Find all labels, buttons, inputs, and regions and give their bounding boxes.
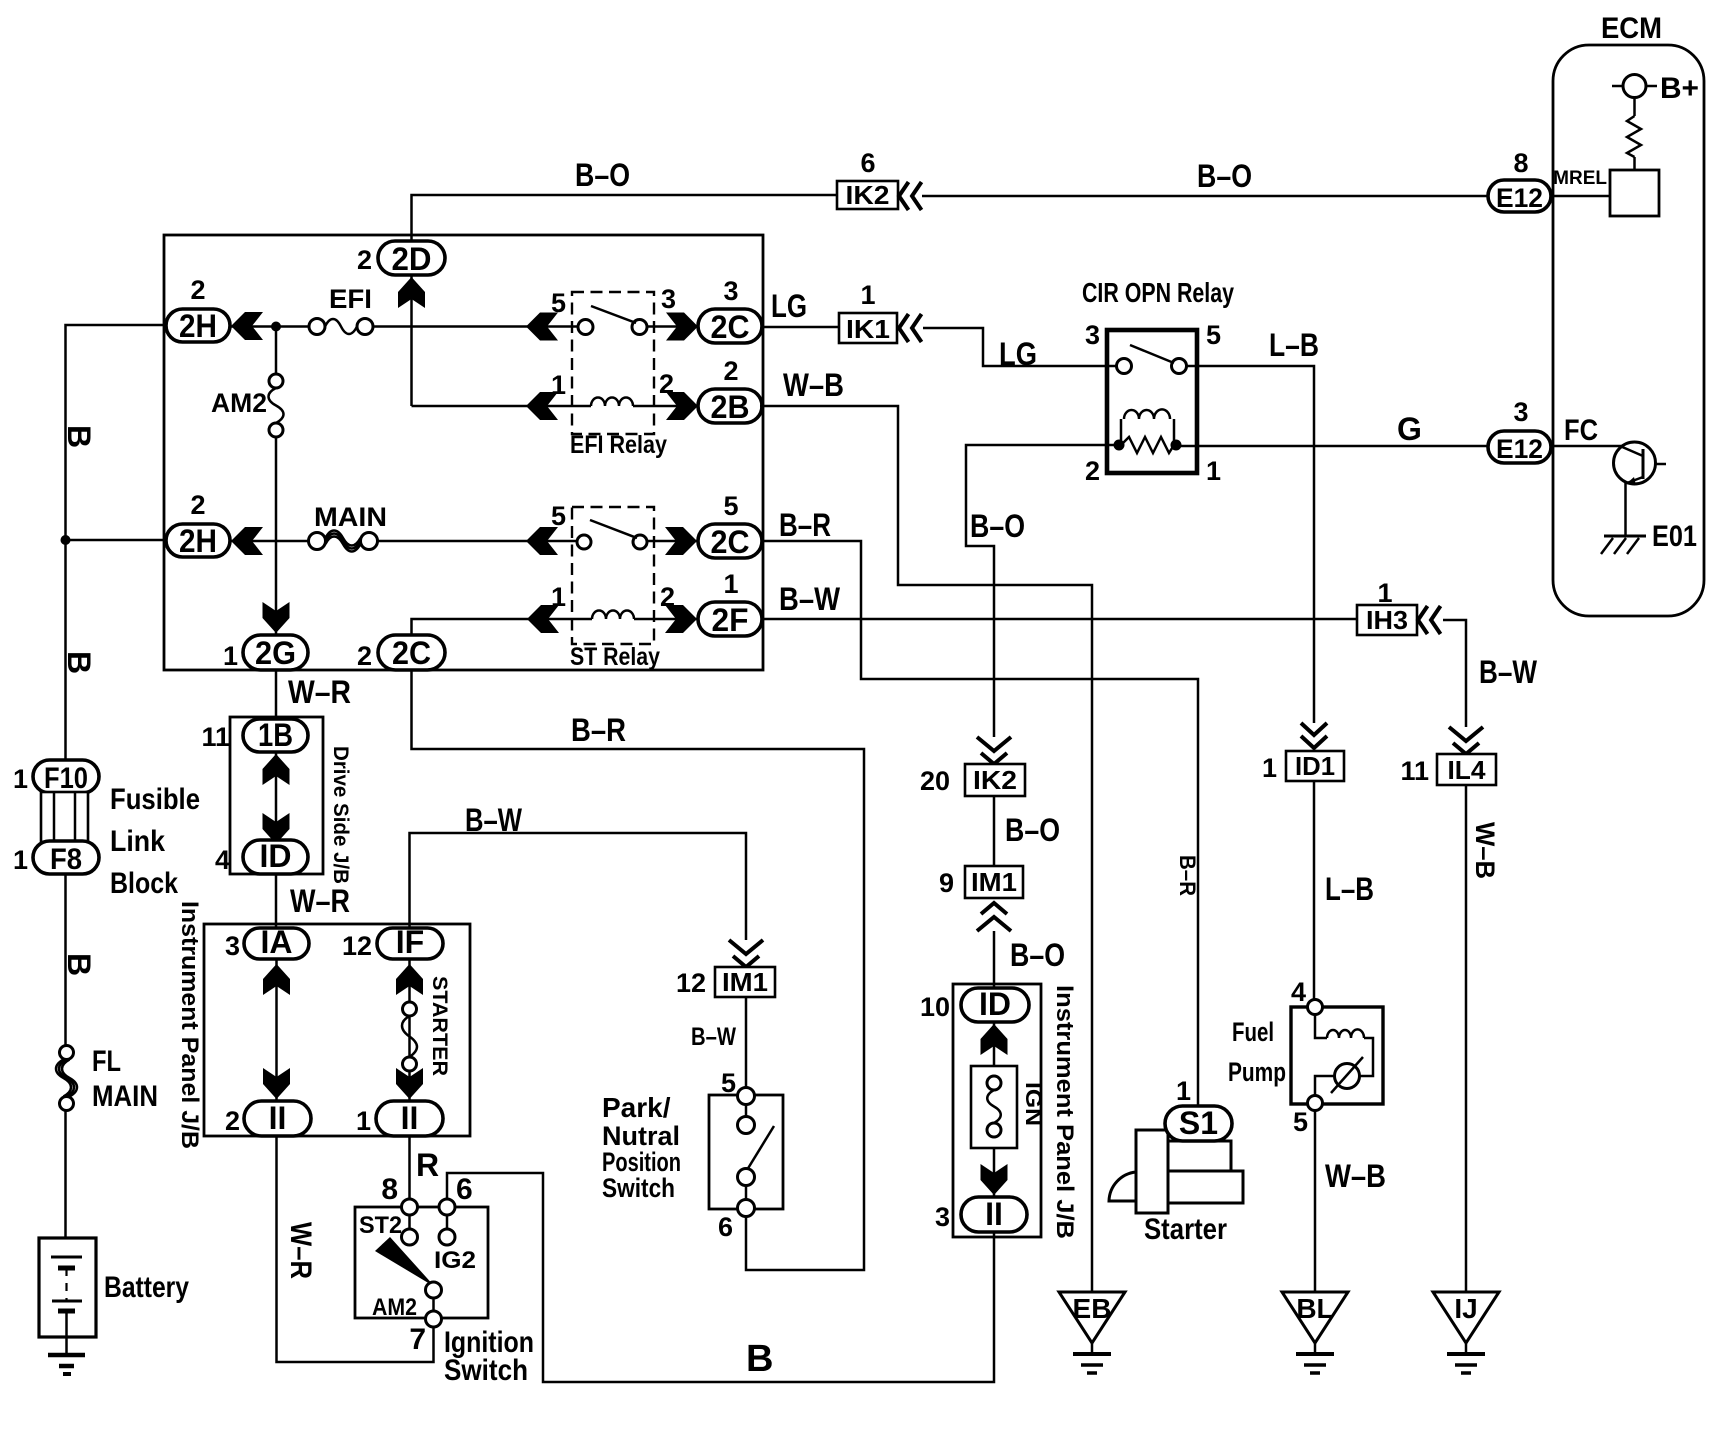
relay EFI coil [591, 398, 633, 407]
ECM module box [1553, 12, 1704, 616]
arrow ST coil in [527, 605, 559, 633]
connector II pin 1 [356, 1100, 443, 1136]
junction node B to MAIN [61, 535, 71, 545]
svg-text:IJ: IJ [1454, 1293, 1477, 1324]
svg-text:3: 3 [661, 284, 676, 314]
svg-text:1: 1 [1262, 753, 1277, 783]
connector IF pin 12 [342, 924, 443, 961]
svg-text:EB: EB [1073, 1293, 1112, 1324]
svg-text:B–R: B–R [571, 712, 626, 748]
arrow up ID [981, 1024, 1008, 1055]
svg-text:11: 11 [1400, 756, 1429, 786]
svg-text:Park/: Park/ [602, 1092, 671, 1123]
arrow up IA [263, 964, 290, 995]
arrow EFI coil out to 2B [666, 392, 698, 420]
junction node AM2/EFI [271, 322, 281, 332]
wire B-W 2F to IH3 [762, 618, 1357, 621]
relay ST coil [592, 611, 634, 620]
label Fusible Link Block [110, 783, 200, 900]
svg-text:Instrument Panel J/B: Instrument Panel J/B [1051, 985, 1078, 1239]
svg-text:Link: Link [110, 825, 165, 858]
svg-text:AM2: AM2 [372, 1294, 417, 1321]
svg-text:B–O: B–O [1197, 158, 1252, 194]
svg-text:ID: ID [979, 986, 1011, 1022]
MREL driver block [1553, 168, 1659, 216]
fuse STARTER [402, 976, 451, 1076]
svg-text:Switch: Switch [444, 1354, 528, 1387]
svg-text:E12: E12 [1496, 434, 1543, 464]
svg-text:2F: 2F [712, 602, 749, 638]
svg-text:2C: 2C [392, 635, 431, 671]
svg-text:II: II [269, 1100, 287, 1136]
instrument panel junction block box right [953, 984, 1041, 1237]
connector 2F pin 1 (B-W out) [698, 569, 762, 638]
connector IM1 pin 9 [939, 866, 1023, 898]
svg-text:B–W: B–W [691, 1023, 736, 1051]
wire ID to II [993, 1022, 996, 1197]
svg-text:2B: 2B [711, 389, 750, 425]
connector IA pin 3 [225, 924, 309, 961]
svg-text:B: B [61, 651, 97, 674]
wire resistor to MREL driver [1633, 157, 1636, 170]
svg-text:ID: ID [260, 838, 292, 874]
connector 2C pin 5 (B-R out) [698, 491, 762, 560]
svg-text:B–W: B–W [465, 802, 523, 838]
connector 2C pin 2 (to ST coil) [357, 635, 445, 671]
wire emitter to E01 [1624, 483, 1627, 536]
svg-text:3: 3 [1513, 397, 1528, 427]
arrow up 1B [263, 754, 290, 785]
park switch lower contact [738, 1169, 755, 1201]
svg-text:LG: LG [771, 288, 807, 324]
relay ST contacts [577, 520, 647, 549]
connector E12 pin 8 (MREL) [1488, 148, 1551, 213]
svg-text:MAIN: MAIN [92, 1080, 158, 1113]
svg-text:B–W: B–W [779, 581, 841, 617]
svg-text:IK2: IK2 [973, 765, 1017, 795]
wire B-O from 2D to IK2-6 [412, 195, 838, 241]
park neutral position switch box [709, 1095, 783, 1209]
svg-text:FL: FL [92, 1045, 121, 1078]
svg-text:R: R [416, 1147, 439, 1183]
relay CIR OPN outline [1082, 277, 1234, 486]
svg-text:ST Relay: ST Relay [570, 643, 660, 671]
ignition pin 7 [409, 1298, 441, 1356]
svg-text:F8: F8 [50, 843, 82, 876]
svg-text:1B: 1B [258, 717, 293, 753]
fuse EFI [309, 284, 373, 335]
fuel pump coil [1315, 1014, 1373, 1076]
wire B-O relay pin 2 to IK2-20 [966, 445, 1119, 737]
svg-text:5: 5 [723, 491, 738, 521]
junction node pin 1 [1171, 440, 1182, 451]
svg-text:Fusible: Fusible [110, 783, 200, 816]
fusible link F8 pin 1 [13, 841, 99, 876]
svg-text:EFI Relay: EFI Relay [570, 431, 667, 459]
ignition ST2 contact [359, 1212, 418, 1245]
arrow ST relay in [526, 527, 558, 555]
svg-text:B: B [61, 953, 97, 976]
junction chevrons above IM1-12 [729, 940, 763, 967]
arrow down II-3 [981, 1164, 1008, 1195]
connector E12 pin 3 (FC) [1488, 397, 1598, 464]
connector 2H pin 2 (MAIN feed) [166, 490, 230, 559]
svg-text:4: 4 [215, 845, 230, 875]
ground EB [1059, 1292, 1125, 1373]
park switch pin 6 [718, 1200, 755, 1243]
svg-text:ID1: ID1 [1295, 751, 1335, 781]
wire EFI relay coil row [412, 405, 699, 408]
B+ terminal [1612, 72, 1699, 105]
svg-text:Drive Side J/B: Drive Side J/B [329, 746, 352, 884]
svg-text:MREL: MREL [1553, 168, 1607, 189]
connector 2G pin 1 [223, 635, 308, 671]
svg-text:ST2: ST2 [359, 1212, 402, 1239]
fuel pump pin 4 [1291, 977, 1323, 1015]
battery [39, 1238, 189, 1354]
svg-text:IK2: IK2 [846, 180, 890, 210]
wire FC base [1551, 445, 1622, 448]
svg-text:3: 3 [723, 276, 738, 306]
wire FL MAIN to battery [64, 1110, 67, 1257]
arrow EFI coil in [526, 392, 558, 420]
connector IH3 pin 1 [1357, 578, 1417, 635]
connector ID pin 10 [920, 986, 1029, 1022]
ignition IG2 contact [434, 1215, 476, 1274]
fusible link F10 pin 1 [13, 760, 99, 795]
svg-text:AM2: AM2 [211, 388, 267, 418]
svg-text:ECM: ECM [1601, 12, 1662, 45]
svg-text:2: 2 [723, 356, 738, 386]
ignition switch box [355, 1207, 488, 1318]
connector IL4 pin 11 [1400, 754, 1496, 786]
wire W-B IL4 to IJ ground [1465, 785, 1468, 1292]
arrow down II-1 [396, 1068, 423, 1099]
svg-text:B: B [61, 425, 97, 448]
fuel pump pin 5 [1293, 1096, 1323, 1138]
resistor (MREL pull-up) [1627, 116, 1641, 157]
svg-text:8: 8 [381, 1173, 398, 1206]
junction node pin 2 [1114, 440, 1125, 451]
junction chevrons at IK2-6 [899, 182, 922, 210]
connector IK2 pin 6 [837, 148, 898, 210]
starter motor body [1109, 1130, 1243, 1246]
engine room junction block box [164, 235, 763, 670]
svg-text:7: 7 [409, 1323, 426, 1356]
wire B-R 2C to starter S1 [762, 541, 1198, 1106]
svg-text:3: 3 [1085, 320, 1100, 350]
svg-text:CIR OPN Relay: CIR OPN Relay [1082, 277, 1234, 308]
svg-text:6: 6 [718, 1212, 733, 1242]
svg-text:W–B: W–B [1470, 822, 1500, 879]
svg-text:W–B: W–B [1325, 1158, 1386, 1194]
svg-text:W–R: W–R [290, 883, 350, 919]
svg-text:1: 1 [1206, 456, 1221, 486]
svg-text:FC: FC [1564, 414, 1598, 447]
park switch blade [747, 1126, 774, 1170]
svg-text:2D: 2D [392, 241, 432, 277]
svg-text:1: 1 [13, 845, 28, 875]
label Park/Nutral Position Switch [602, 1092, 681, 1203]
connector S1 pin 1 [1165, 1076, 1232, 1141]
wire B-O IK2-20 to IM1-9 [993, 796, 996, 866]
wire W-R II-2 to ignition AM2 [277, 1136, 434, 1362]
wire B to 2H MAIN [66, 539, 167, 542]
svg-text:L–B: L–B [1269, 327, 1319, 363]
wire B-W IM1-12 to park switch pin 5 [745, 997, 748, 1089]
wire F8 to FL MAIN [64, 874, 67, 1047]
wire MAIN fuse row [230, 540, 698, 543]
junction chevrons at IH3 [1418, 606, 1441, 634]
svg-text:Block: Block [110, 867, 178, 900]
relay EFI contacts [578, 306, 647, 335]
wire B battery to 2H top [66, 325, 167, 762]
svg-text:E12: E12 [1496, 183, 1543, 213]
svg-text:2H: 2H [179, 523, 217, 559]
svg-text:6: 6 [456, 1173, 473, 1206]
svg-text:2: 2 [1085, 456, 1100, 486]
svg-text:E01: E01 [1652, 520, 1697, 553]
svg-text:2C: 2C [711, 524, 750, 560]
svg-text:STARTER: STARTER [428, 976, 451, 1076]
svg-text:Pump: Pump [1228, 1057, 1286, 1087]
arrow up IF [396, 964, 423, 995]
svg-text:IM1: IM1 [971, 867, 1017, 897]
wire 2D to EFI relay coil [410, 275, 413, 406]
connector II pin 2 [225, 1100, 311, 1136]
svg-text:8: 8 [1513, 148, 1528, 178]
svg-text:1: 1 [1377, 578, 1392, 608]
wire B-O IM1-9 to ID [993, 931, 996, 988]
svg-text:11: 11 [201, 722, 230, 752]
wire B-W IF to IM1-12 [410, 833, 747, 940]
svg-text:B–R: B–R [1175, 855, 1200, 896]
svg-text:L–B: L–B [1325, 871, 1374, 907]
svg-text:W–R: W–R [284, 1222, 317, 1279]
wire W-B fuel pump to BL ground [1314, 1110, 1317, 1292]
wire IA to II [275, 959, 278, 1101]
svg-text:10: 10 [920, 992, 950, 1022]
wire W-B 2B to EB ground [760, 406, 1092, 1292]
junction chevrons above IL4 [1449, 727, 1483, 754]
arrow down ID [263, 813, 290, 844]
drive side junction block box [230, 717, 323, 874]
connector 2H pin 2 (EFI feed) [166, 275, 230, 344]
svg-text:Instrument Panel J/B: Instrument Panel J/B [176, 901, 203, 1149]
connector IM1 pin 12 [676, 967, 775, 998]
relay CIR OPN contacts pin 3 / pin 5 [1117, 345, 1187, 374]
svg-text:5: 5 [551, 501, 566, 531]
wire E12-8 to MREL [1551, 195, 1610, 198]
svg-text:B–O: B–O [970, 508, 1025, 544]
svg-text:IL4: IL4 [1448, 755, 1487, 785]
junction chevrons above ID1 [1301, 723, 1327, 748]
svg-text:B–W: B–W [1479, 654, 1538, 690]
svg-text:3: 3 [935, 1202, 950, 1232]
svg-text:2: 2 [357, 641, 372, 671]
svg-text:Starter: Starter [1144, 1213, 1227, 1246]
svg-text:6: 6 [860, 148, 875, 178]
svg-text:BL: BL [1296, 1293, 1333, 1324]
junction chevrons above IK2-20 [977, 737, 1011, 764]
wire L-B ID1 to fuel pump pin 4 [1313, 781, 1316, 1000]
svg-text:B–R: B–R [779, 507, 831, 543]
svg-text:Battery: Battery [104, 1271, 189, 1304]
arrow into 2H [231, 312, 263, 340]
svg-text:IM1: IM1 [722, 967, 768, 997]
wire EFI fuse row [230, 325, 698, 328]
svg-text:W–R: W–R [288, 674, 351, 710]
fuel pump motor [1315, 1057, 1363, 1096]
arrow EFI relay in [526, 313, 558, 341]
svg-text:2: 2 [190, 490, 205, 520]
wire L-B relay pin 5 to ID1 [1186, 366, 1314, 723]
fuel pump box [1228, 1007, 1383, 1104]
connector 2C pin 3 (LG out) [698, 276, 762, 345]
svg-text:2G: 2G [255, 635, 296, 671]
fusible link block body [41, 792, 88, 842]
connector 2B pin 2 (W-B out) [698, 356, 762, 425]
svg-text:II: II [401, 1100, 419, 1136]
svg-text:5: 5 [1206, 320, 1221, 350]
svg-text:1: 1 [356, 1106, 371, 1136]
wire B-W IH3 to IL4 [1443, 620, 1466, 727]
arrow down II [263, 1068, 290, 1099]
svg-text:B–O: B–O [575, 157, 630, 193]
wire B-O from IK2-6 to E12-8 [922, 195, 1488, 198]
svg-text:EFI: EFI [329, 284, 372, 314]
arrow ST relay out to 2C [665, 527, 697, 555]
wire R II-1 to ignition pin 8 [408, 1136, 411, 1200]
fuse AM2 [211, 327, 284, 637]
ground IJ [1433, 1292, 1499, 1373]
fusible link MAIN [309, 502, 388, 552]
relay EFI dashed outline [551, 284, 676, 459]
wire ignition pin 6 to B run [447, 1173, 994, 1382]
ignition pin 8 [381, 1173, 417, 1215]
svg-text:2: 2 [357, 245, 372, 275]
svg-text:2C: 2C [711, 309, 750, 345]
svg-text:4: 4 [1291, 977, 1306, 1007]
svg-text:20: 20 [920, 766, 950, 796]
wire B+ to resistor [1633, 98, 1636, 117]
park switch upper contact [738, 1104, 755, 1134]
svg-text:IH3: IH3 [1366, 605, 1408, 635]
ignition pin 6 [439, 1173, 473, 1215]
relay CIR OPN coil [1121, 409, 1174, 445]
ignition AM2 pivot [372, 1282, 442, 1321]
svg-text:B–O: B–O [1010, 937, 1065, 973]
wire ST relay coil row [412, 619, 699, 636]
instrument panel junction block box left [204, 924, 470, 1136]
park switch pin 5 [721, 1068, 755, 1105]
svg-text:12: 12 [342, 931, 372, 961]
svg-text:IK1: IK1 [846, 314, 890, 344]
junction chevrons below IM1-9 [977, 903, 1011, 931]
svg-text:IGN: IGN [1021, 1082, 1046, 1126]
svg-text:II: II [985, 1196, 1003, 1232]
svg-text:3: 3 [225, 931, 240, 961]
svg-text:5: 5 [721, 1068, 736, 1098]
connector 1B pin 11 [201, 717, 308, 753]
arrow up into 2D [398, 277, 425, 308]
svg-text:B–O: B–O [1005, 812, 1060, 848]
connector IK1 pin 1 [839, 280, 897, 344]
connector ID pin 4 [215, 838, 308, 875]
ground E01 [1601, 520, 1697, 554]
wire LG 2C to IK1 [762, 326, 839, 329]
fusible link FL MAIN [56, 1045, 158, 1113]
connector ID1 pin 1 [1262, 751, 1344, 783]
svg-text:Fuel: Fuel [1232, 1017, 1274, 1047]
arrow into 2H MAIN [231, 527, 263, 555]
ground BL [1282, 1292, 1348, 1373]
wire B-R park pin 6 to 2C [412, 670, 865, 1270]
svg-text:1: 1 [723, 569, 738, 599]
wire LG IK1 to relay pin 3 [923, 328, 1117, 366]
wire W-R 2G to 1B [275, 670, 278, 719]
svg-text:IG2: IG2 [434, 1247, 476, 1274]
svg-text:2H: 2H [179, 308, 217, 344]
wire G relay pin 1 to E12-3 [1176, 445, 1488, 448]
svg-text:1: 1 [1176, 1076, 1191, 1106]
svg-text:1: 1 [13, 764, 28, 794]
svg-text:12: 12 [676, 968, 706, 998]
svg-text:1: 1 [860, 280, 875, 310]
arrow ST coil out to 2F [665, 605, 697, 633]
fuse IGN box [971, 1066, 1046, 1148]
connector 2D pin 2 [357, 241, 445, 277]
arrow EFI relay out to 2C [666, 313, 698, 341]
relay ST dashed outline [551, 501, 675, 671]
svg-text:IA: IA [261, 924, 293, 960]
svg-text:IF: IF [396, 924, 424, 960]
svg-text:MAIN: MAIN [314, 502, 387, 532]
connector II pin 3 [935, 1196, 1027, 1232]
ground battery [48, 1355, 85, 1374]
svg-text:Switch: Switch [602, 1173, 675, 1203]
svg-text:B: B [746, 1338, 773, 1380]
svg-text:1: 1 [223, 641, 238, 671]
svg-text:W–B: W–B [783, 367, 844, 403]
wire W-R ID to IA [275, 874, 278, 928]
connector IK2 pin 20 [920, 764, 1025, 796]
svg-text:5: 5 [1293, 1107, 1308, 1137]
svg-text:9: 9 [939, 868, 954, 898]
relay CIR OPN resistor [1121, 437, 1174, 453]
svg-text:S1: S1 [1179, 1105, 1218, 1141]
arrow down into 2G [263, 602, 290, 633]
svg-text:2: 2 [225, 1106, 240, 1136]
svg-text:G: G [1397, 411, 1422, 447]
svg-text:LG: LG [999, 336, 1037, 372]
transistor Q1 FC driver [1614, 442, 1667, 485]
ignition lever [375, 1237, 435, 1287]
svg-text:B+: B+ [1660, 72, 1699, 105]
wire IF to II [408, 959, 411, 1101]
svg-text:F10: F10 [44, 762, 88, 795]
wire 1B to ID [275, 752, 278, 840]
junction chevrons at IK1 [899, 314, 922, 342]
svg-text:2: 2 [190, 275, 205, 305]
label Ignition Switch [444, 1326, 534, 1387]
